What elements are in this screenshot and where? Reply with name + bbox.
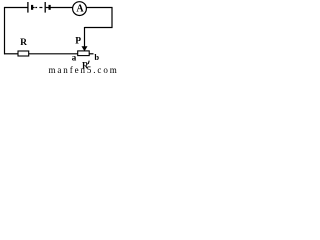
wire left side bbox=[4, 7, 6, 54]
resistor R body bbox=[18, 51, 29, 56]
ammeter A1 circle bbox=[73, 2, 87, 16]
svg-text:P: P bbox=[75, 36, 81, 46]
wire middle horizontal to slider bbox=[85, 27, 113, 29]
battery cell 2 long plate bbox=[44, 2, 46, 13]
svg-text:A: A bbox=[76, 3, 84, 14]
wire top-left from battery to left corner bbox=[4, 7, 28, 9]
wire nub after cell 1 bbox=[33, 7, 35, 9]
battery cell 1 short plate bbox=[31, 5, 33, 10]
wire nub before cell 2 short plate bbox=[46, 7, 49, 9]
battery dashed link bbox=[35, 7, 37, 9]
wire stub rheostat terminal b bbox=[89, 53, 94, 55]
prime mark of R' bbox=[88, 61, 89, 64]
svg-text:R: R bbox=[20, 38, 27, 48]
svg-text:R: R bbox=[82, 61, 89, 71]
wire bottom from left corner to resistor R bbox=[4, 53, 19, 55]
rheostat R' body bbox=[78, 51, 90, 56]
wire slider shaft bbox=[84, 27, 86, 48]
svg-text:b: b bbox=[94, 52, 99, 62]
battery cell 1 long plate bbox=[27, 2, 29, 13]
svg-text:a: a bbox=[72, 52, 77, 62]
rheostat slider arrowhead bbox=[82, 46, 88, 51]
battery cell 2 short plate bbox=[48, 5, 50, 10]
wire top from battery to ammeter and to right corner bbox=[50, 7, 112, 9]
wire bottom from resistor R to rheostat terminal a bbox=[29, 53, 79, 55]
wire right side bbox=[111, 7, 113, 28]
